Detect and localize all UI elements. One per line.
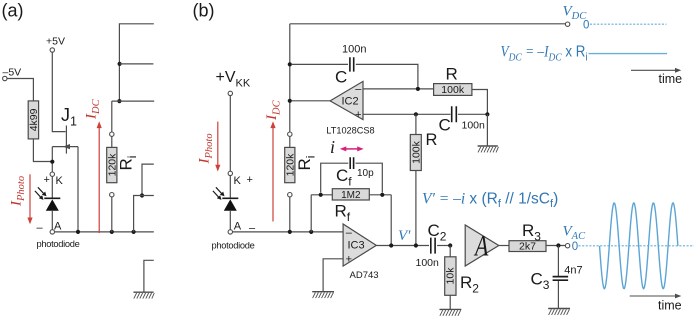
svg-text:K: K [234,175,242,187]
svg-text:–: – [346,227,353,239]
svg-text:0: 0 [583,20,589,32]
current label i with arrow [330,137,364,157]
wire IC2 inverting input [363,88,434,90]
node K terminal [44,172,64,187]
svg-text:i: i [330,137,335,157]
ground symbol C3 [548,309,570,315]
node junction 100k vertical [414,112,418,116]
wire dashed V_DC waveform baseline [590,23,667,25]
resistor 120k R_i [106,132,118,232]
-5V supply terminal [3,67,22,81]
svg-text:+: + [355,109,361,121]
node junction 100k output [414,243,418,247]
wire R_f left to rail [310,195,312,232]
current label I_Photo [9,174,33,224]
svg-text:1M2: 1M2 [341,190,361,201]
svg-text:C: C [335,68,347,87]
svg-text:+: + [247,174,253,186]
svg-text:10k: 10k [445,267,457,285]
node A terminal [228,221,256,235]
svg-text:100n: 100n [416,257,440,269]
ground symbol IC3 [312,292,334,298]
svg-text:4n7: 4n7 [564,265,582,277]
svg-text:+5V: +5V [46,36,65,48]
+VKK supply terminal [216,69,251,96]
wire main vertical from top rail [289,24,291,132]
node junction R_f output [389,243,393,247]
capacitor C2 100n [416,221,451,269]
resistor R_f 1M2 [311,189,391,224]
node junction right branch on rail [132,230,136,234]
svg-text:(b): (b) [193,1,215,21]
capacitor C3 4n7 [531,246,583,309]
svg-text:V′: V′ [398,228,411,244]
svg-text:0: 0 [572,241,578,253]
current label I_Photo [197,122,221,172]
capacitor C 100n lower [439,106,488,134]
svg-text:–: – [355,84,362,96]
node junction 120k on rail [110,230,114,234]
resistor R 100k horizontal [434,65,472,97]
ground symbol IC2 network [478,114,499,152]
wire IC2 output [292,100,330,102]
svg-text:–: – [37,222,44,234]
node junction feedback on rail [309,230,313,234]
wire inverting rail to IC3 [233,231,344,233]
op-amp IC3 [343,224,378,281]
wire top feedback rail (cut) [119,24,153,101]
node junction C3 [556,243,560,247]
wire dashed V_AC waveform baseline [579,245,695,247]
svg-text:photodiode: photodiode [212,240,255,250]
resistor R3 2k7 [499,221,566,252]
capacitor C 100n integrator [292,44,418,87]
svg-text:A: A [473,229,489,262]
node junction C2 R2 [448,243,452,247]
current label I_DC [84,98,103,233]
resistor 4k99 [28,101,40,139]
svg-text:IC2: IC2 [342,96,359,108]
node K terminal [228,171,253,187]
wire IC3 non-inverting to ground [323,259,343,292]
node stub junction lower / wire to 120k [112,99,154,132]
svg-text:100k: 100k [410,140,422,164]
svg-text:time: time [659,72,683,86]
svg-text:photodiode: photodiode [37,239,80,249]
node time axis lower [630,294,682,313]
wire top rail to VDC [290,23,566,25]
svg-text:10p: 10p [357,168,374,179]
+5V supply terminal [46,36,65,53]
svg-text:A: A [234,221,242,233]
node junction J1 leg on rail [76,230,80,234]
wire right branch lower (cut) [134,196,154,232]
photodiode D2 [213,176,238,230]
resistor 120k R_i [284,132,296,232]
node A terminal [37,221,63,235]
svg-text:LT1028CS8: LT1028CS8 [326,126,374,136]
svg-text:time: time [658,299,682,313]
ground symbol panel a [133,260,154,298]
capacitor C_f 10p [321,157,383,192]
svg-text:100k: 100k [441,84,465,96]
node junction 120k on rail [288,230,292,234]
photodiode D1 [35,176,60,229]
wire R to cap node [472,90,488,115]
node junction C feedback [288,62,292,66]
node time axis upper [631,68,682,86]
svg-text:R: R [446,65,458,84]
amplifier A [465,225,499,266]
wire J1 source to cathode node [51,147,53,172]
svg-text:+: + [346,253,352,265]
svg-text:A: A [54,221,62,233]
resistor R 100k vertical [410,114,437,245]
node V_AC output terminal [563,224,587,248]
wire V_AC sine waveform [600,203,678,289]
transistor J1 [52,105,78,154]
svg-text:V′ = –i x (Rf // 1/sCf): V′ = –i x (Rf // 1/sCf) [422,191,558,211]
node cathode junction [50,160,54,164]
op-amp IC2 [326,81,374,135]
svg-text:–: – [249,223,256,235]
svg-text:R: R [426,131,438,149]
wire right branch upper (cut) [142,164,154,195]
wire ground rail [55,231,154,233]
current label I_DC [264,99,283,221]
wire -5V to 4k99 [7,79,33,101]
svg-text:AD743: AD743 [350,270,379,281]
node V_DC output terminal [563,4,588,27]
svg-text:100n: 100n [462,120,486,132]
wire R_f right to output [390,195,392,246]
ground symbol R2 [440,309,462,315]
node junction C to inv input [416,87,420,91]
svg-text:C: C [439,116,451,135]
node junction right branch [140,193,144,197]
resistor R2 10k [445,246,480,310]
node stub junction upper [118,62,154,66]
wire VKK to photodiode K [229,96,231,172]
svg-text:4k99: 4k99 [28,108,40,131]
svg-text:+: + [44,174,50,186]
wire V_DC flat waveform [589,53,668,55]
wire IC2 non-inverting input [363,113,451,115]
svg-text:K: K [56,175,64,187]
wire J1 right leg to ground rail [77,147,79,232]
svg-text:(a): (a) [2,1,24,21]
node junction cap ground [485,112,489,116]
node junction IC2 output [288,99,292,103]
svg-text:IC3: IC3 [348,240,365,252]
wire IC3 output V' [376,245,429,247]
svg-text:100n: 100n [342,44,366,56]
wire +5V to J1 drain [52,52,65,131]
wire 4k99 to cathode node [33,139,52,162]
